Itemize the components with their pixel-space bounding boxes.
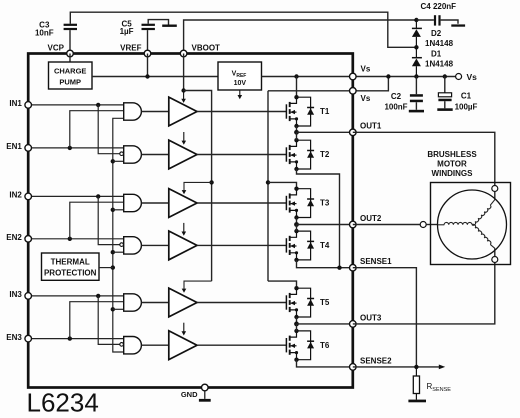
svg-text:GND: GND [181,390,198,399]
svg-text:L6234: L6234 [27,388,99,418]
wire gate 2 to driver [141,154,168,156]
arrow VBOOT to driver 1 [183,91,185,100]
wire T5 source to OUT3 [296,317,298,324]
driver 2 [169,140,197,169]
node OUT1 [294,130,299,135]
svg-text:Vs: Vs [467,72,478,82]
node thermal bus tap [111,307,115,311]
wire IN3 [28,295,124,297]
wire SENSE2 external [353,366,440,368]
wire IN3 inverted branch [98,296,120,345]
wire Vs to T3 drain [268,182,297,188]
ground (Rsense) [408,400,426,403]
svg-text:PROTECTION: PROTECTION [44,269,97,278]
capacitor C5 [142,24,155,30]
and gate 5 [124,294,142,311]
wire OUT1 to motor [353,132,495,185]
svg-text:VCP: VCP [48,43,65,52]
wire Vs to T1 drain [296,77,298,98]
wire thermal bus to gate [113,251,124,253]
svg-text:10nF: 10nF [35,28,54,37]
arrow regulator output [239,90,241,95]
svg-text:EN1: EN1 [6,142,22,151]
svg-text:10V: 10V [234,80,247,87]
pin VREF [144,50,151,57]
terminal motor phase 2 [420,222,426,228]
pin SENSE1 [350,264,357,271]
node VBOOT [181,88,185,92]
wire EN2 branch [70,202,124,239]
and gate 6 [124,337,142,354]
arrow supply driver 2 [183,132,185,141]
wire Vs rail [267,91,269,281]
and gate 3 [124,194,142,211]
ground (C1) [437,108,452,111]
svg-text:MOTOR: MOTOR [437,160,467,169]
node SENSE1 junction [337,266,341,270]
pin EN2 [25,236,32,243]
ground (GND pin) [204,391,206,399]
wire EN2 [28,238,124,240]
arrow supply driver 6 [183,323,185,332]
driver 4 [169,231,197,260]
svg-text:C1: C1 [461,92,472,101]
node IN1 branch [96,103,100,107]
svg-text:EN3: EN3 [6,333,22,342]
driver 3 [169,189,197,218]
winding phase C [472,224,491,244]
winding phase B [472,205,491,225]
node Vs rail T3 tap [266,180,270,184]
wire OUT2 to T4 drain [296,225,298,232]
transistor T3 [286,187,314,220]
pin VCP [67,50,74,57]
and gate 1 [124,103,142,120]
wire VBOOT drop [183,54,185,91]
svg-text:VREF: VREF [120,43,141,52]
wire T4 source to SENSE1 [297,260,353,268]
wire driver 4 to gate of T4 [197,244,286,246]
transistor T4 [286,229,314,262]
wire Vs to T5 drain [268,281,297,288]
wire driver 5 to gate of T5 [197,302,286,304]
node thermal bus tap [111,265,115,269]
terminal motor phase 3 [492,257,498,263]
wire gate 5 to driver [141,302,168,304]
svg-text:THERMAL: THERMAL [51,258,90,267]
capacitor C2 [410,77,423,110]
svg-text:T2: T2 [320,150,330,159]
transistor T5 [286,286,314,319]
node OUT2 [294,222,299,227]
arrow VBOOT to driver 5 [184,281,212,289]
winding phase A [438,224,445,226]
wire EN3 [28,338,124,340]
node T1 drain / Vs [294,74,298,78]
ground (C4) [451,24,465,26]
svg-text:OUT3: OUT3 [360,313,382,322]
wire VBOOT rail [184,91,212,282]
diode D1 [412,47,422,76]
wire OUT3 internal [297,323,353,325]
regulator VREF 10V block [218,62,262,90]
motor circle [438,190,507,259]
wire IN2 [28,195,124,197]
wire thermal bus to gate [113,209,124,211]
charge pump block [49,62,93,89]
svg-text:Vs: Vs [361,64,371,73]
terminal motor phase 1 [492,186,498,192]
diode D2 [412,20,422,47]
svg-text:CHARGE: CHARGE [54,67,87,76]
svg-text:T5: T5 [320,298,330,307]
wire thermal bus to gate [113,308,124,310]
svg-text:1N4148: 1N4148 [425,39,454,48]
wire Vs pin2 jog [353,77,389,91]
wire VREF drop [147,54,149,77]
svg-text:C4 220nF: C4 220nF [421,2,457,11]
pin SENSE2 [350,364,357,371]
wire C5 to ground [148,20,168,25]
terminal Vs [456,74,462,80]
wire OUT3 to T6 drain [296,324,298,331]
node SENSE/Rsense [414,365,418,369]
wire EN3 branch [70,302,124,339]
node thermal bus tap [111,250,115,254]
svg-text:OUT1: OUT1 [360,122,382,131]
wire regulator to Vs pin [262,76,353,78]
wire gate 3 to driver [141,202,168,204]
wire EN1 [28,147,124,149]
svg-text:Vs: Vs [361,94,371,103]
node thermal bus tap [111,208,115,212]
and gate 4 [124,237,142,254]
ground (C5) [162,25,177,27]
pin IN1 [25,102,32,109]
svg-text:T1: T1 [320,107,330,116]
svg-text:IN3: IN3 [9,290,22,299]
svg-text:T3: T3 [320,199,330,208]
wire driver 1 to gate of T1 [197,111,286,113]
wire IN2 inverted branch [98,196,120,244]
and gate 2 [124,146,142,163]
wire Vs pin2 internal [268,90,353,92]
svg-text:SENSE1: SENSE1 [360,257,392,266]
node thermal bus tap [111,159,115,163]
pin Vs 1 [350,73,357,80]
svg-text:T4: T4 [320,241,330,250]
wire IN1 inverted branch [98,105,120,154]
svg-text:EN2: EN2 [6,233,22,242]
wire OUT2 to motor [353,224,420,226]
wire gate 4 to driver [141,244,168,246]
svg-text:1N4148: 1N4148 [425,60,454,69]
wire OUT3 to motor [353,263,495,324]
svg-text:BRUSHLESS: BRUSHLESS [427,150,477,159]
wire thermal protection bus [113,118,124,352]
wire driver 6 to gate of T6 [197,344,286,346]
pin VBOOT [180,50,187,57]
wire T1 source to OUT1 [296,126,298,132]
wire IN1 [28,104,124,106]
node EN3 branch [68,336,72,340]
IC body L6234 [28,54,353,388]
svg-text:OUT2: OUT2 [360,214,382,223]
node D1/D2/C3 [414,45,418,49]
node C4/D2/VBOOT [414,18,418,22]
wire thermal bus to gate [113,160,124,162]
thermal protection block [42,253,100,280]
svg-text:VBOOT: VBOOT [192,44,221,53]
svg-text:1µF: 1µF [120,27,134,36]
wire driver 2 to gate of T2 [197,154,286,156]
svg-text:SENSE2: SENSE2 [360,356,392,365]
svg-text:C2: C2 [391,92,402,101]
arrow sense feedback [439,365,445,370]
pin OUT2 [350,221,357,228]
svg-text:IN1: IN1 [9,99,22,108]
pin IN3 [25,293,32,300]
wire OUT1 to T2 drain [296,132,298,140]
node IN2 branch [96,194,100,198]
pin EN1 [25,145,32,152]
wire EN1 branch [70,111,124,148]
svg-text:100nF: 100nF [384,102,407,111]
node IN3 branch [96,294,100,298]
arrow VBOOT to driver 3 [184,182,212,190]
wire driver 3 to gate of T3 [197,202,286,204]
wire OUT1 internal [297,131,353,133]
node VBOOT rail T3 tap [209,180,213,184]
wire VREF to C5 [147,30,149,53]
node Vs jog [386,74,390,78]
wire SENSE1 external [353,268,417,367]
resistor Rsense [413,367,419,400]
pin OUT1 [350,129,357,136]
wire T2 source to sense1 bus [297,169,340,268]
wire thermal protection output [99,267,113,269]
node EN2 branch [68,237,72,241]
driver 1 [169,97,197,126]
brushless motor windings box [431,183,511,265]
ground (C2) [409,110,424,113]
wire VBOOT riser to C4 node [184,20,417,54]
wire OUT2 internal [297,224,353,226]
pin EN3 [25,335,32,342]
node Vs/D1 [414,74,418,78]
wire T6 source to SENSE2 [297,360,353,367]
arrow supply driver 4 [183,223,185,232]
wire VCP to charge pump [69,54,71,63]
svg-text:D1: D1 [431,49,442,58]
svg-text:T6: T6 [320,341,330,350]
capacitor C3 [64,24,77,30]
transistor T2 [286,138,314,171]
pin OUT3 [350,321,357,328]
capacitor C1 [438,77,451,109]
wire gate 6 to driver [141,344,168,346]
pin GND [202,384,209,391]
driver 5 [169,288,197,317]
svg-text:100µF: 100µF [455,102,478,111]
node Vs/C1 [443,74,447,78]
wire T3 source to OUT2 [296,218,298,225]
pin IN2 [25,193,32,200]
svg-text:IN2: IN2 [9,191,22,200]
node VREF/charge pump [145,74,149,78]
wire VCP to C3 [69,30,71,53]
wire charge pump output [92,76,218,78]
wire gate 1 to driver [141,111,168,113]
node EN1 branch [68,146,72,150]
svg-text:WINDINGS: WINDINGS [432,169,474,178]
node OUT3 [294,322,299,327]
wire C3 to D1/D2 junction [70,12,416,47]
capacitor C4 [416,15,458,25]
svg-text:D2: D2 [431,29,442,38]
wire Vs node [353,76,456,78]
svg-text:PUMP: PUMP [59,78,81,87]
driver 6 [169,331,197,360]
transistor T1 [286,95,314,128]
pin Vs 2 [350,88,357,95]
transistor T6 [286,329,314,362]
